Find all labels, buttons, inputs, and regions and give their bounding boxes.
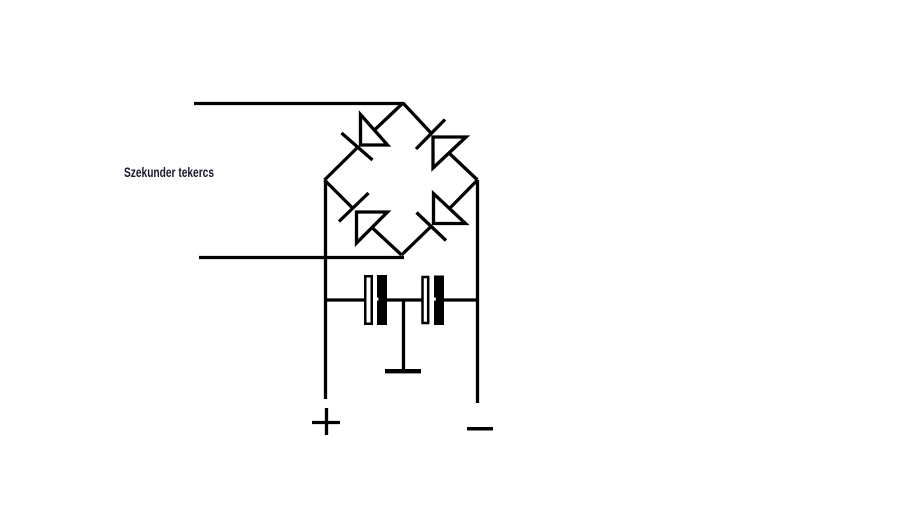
+ terminal symbol — [312, 408, 340, 435]
wire: C2 to right rail — [443, 298, 479, 301]
diode D4 (lower-right arm, points to bottom node) — [417, 194, 466, 241]
svg-text:Szekunder tekercs: Szekunder tekercs — [124, 165, 214, 180]
capacitor C1 plate notch — [376, 298, 378, 301]
wire: left node to D3 cathode (lower-left bridge edge) — [325, 180, 354, 209]
wire: right node to D2 (upper-right bridge edge) — [450, 154, 478, 181]
ground symbol — [385, 369, 421, 373]
- terminal symbol — [467, 427, 493, 431]
diode D2 (upper-right arm, points to top node) — [416, 120, 466, 169]
wire: left rail to capacitor C1 — [324, 298, 365, 301]
capacitor C2 (right plate, filled) — [434, 276, 444, 326]
wire: left node to D1 anode (upper-left bridge edge) — [325, 148, 358, 181]
capacitor C2 plate notch — [434, 298, 436, 301]
capacitor C1 (right plate, filled) — [377, 275, 387, 325]
diode D3 (lower-left arm, points to left + node) — [339, 193, 388, 243]
wire: right vertical rail (right node down to - terminal) — [476, 180, 479, 403]
wire: between C1 and C2 (center node) — [386, 298, 422, 301]
wire: top secondary lead (AC input to top node) — [194, 102, 404, 105]
capacitor C2 (left plate, outlined) — [423, 277, 429, 323]
diode D1 (upper-left arm, points to left + node) — [342, 115, 388, 161]
wire: top node to D1 cathode (upper-left bridge edge) — [375, 103, 403, 130]
wire: right node to D4 anode (lower-right bridge edge) — [450, 180, 478, 209]
wire: top node to D2 anode (upper-right bridge edge) — [403, 103, 432, 134]
wire: center node down to ground — [402, 300, 405, 371]
capacitor C1 (left plate, outlined) — [365, 276, 372, 324]
wire: bottom secondary lead (AC input to bottom node) — [199, 256, 404, 259]
wire: bottom node to D3 anode (lower-left bridge edge) — [372, 228, 402, 256]
wire: left vertical rail (left node down to + terminal) — [324, 180, 327, 399]
wire: bottom node to D4 cathode (lower-right bridge edge) — [402, 227, 431, 255]
